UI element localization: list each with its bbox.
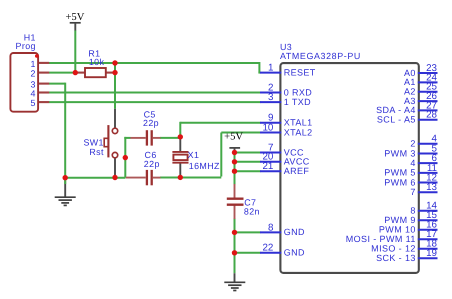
svg-text:22: 22 [262,243,273,254]
svg-text:4: 4 [31,89,36,99]
svg-text:2: 2 [410,139,415,149]
svg-text:1: 1 [31,59,36,69]
svg-text:XTAL1: XTAL1 [284,118,313,128]
svg-text:PWM 6: PWM 6 [384,177,416,187]
svg-text:Rst: Rst [89,147,104,157]
svg-text:16MHZ: 16MHZ [189,161,220,171]
svg-text:PWM 10: PWM 10 [379,225,416,235]
svg-text:AREF: AREF [284,166,310,176]
svg-text:Prog: Prog [16,41,36,51]
svg-text:SW1: SW1 [83,138,103,148]
svg-text:13: 13 [426,182,437,193]
svg-text:+5V: +5V [224,131,243,142]
svg-text:PWM 9: PWM 9 [384,215,416,225]
svg-text:28: 28 [426,110,437,121]
svg-text:0 RXD: 0 RXD [284,87,313,97]
svg-text:10: 10 [262,122,273,133]
svg-text:82n: 82n [244,207,260,217]
svg-text:MOSI - PWM 11: MOSI - PWM 11 [346,234,416,244]
svg-text:PWM 3: PWM 3 [384,148,416,158]
svg-text:21: 21 [262,161,273,172]
svg-text:PWM 5: PWM 5 [384,168,416,178]
svg-text:5: 5 [31,98,36,108]
svg-text:+5V: +5V [65,12,84,23]
svg-text:GND: GND [284,248,305,258]
svg-text:22p: 22p [144,159,160,169]
svg-text:19: 19 [426,248,437,259]
svg-text:10k: 10k [89,57,105,67]
svg-text:MISO - 12: MISO - 12 [371,244,416,254]
svg-text:GND: GND [284,227,305,237]
svg-text:X1: X1 [188,150,200,160]
svg-text:ATMEGA328P-PU: ATMEGA328P-PU [280,51,361,61]
svg-text:3: 3 [268,92,274,103]
svg-text:1: 1 [268,63,273,74]
svg-text:SCL - A5: SCL - A5 [377,115,416,125]
svg-text:1 TXD: 1 TXD [284,97,311,107]
svg-text:2: 2 [31,69,36,79]
svg-text:8: 8 [410,206,415,216]
svg-text:22p: 22p [143,118,159,128]
svg-text:7: 7 [410,187,415,197]
svg-text:8: 8 [268,222,274,233]
svg-text:4: 4 [410,158,415,168]
svg-text:RESET: RESET [284,67,316,77]
svg-text:SCK - 13: SCK - 13 [376,253,416,263]
svg-text:XTAL2: XTAL2 [284,127,313,137]
